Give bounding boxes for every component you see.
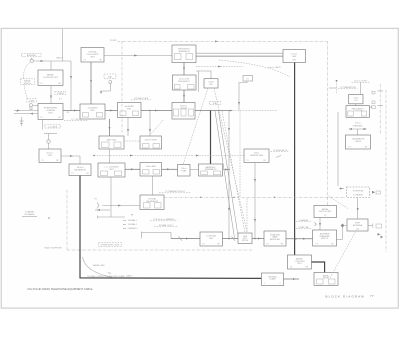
wire aerial lead curve <box>83 257 113 277</box>
svg-text:EXCHANGE: EXCHANGE <box>24 213 35 216</box>
wire FS to B21 <box>103 205 141 207</box>
box B18 1Mc trap <box>178 165 191 177</box>
svg-text:4 CHANNEL: 4 CHANNEL <box>298 219 308 222</box>
node XTAL label left <box>100 74 116 94</box>
wire B20 down <box>254 163 256 239</box>
box B19 harmonic generator <box>199 164 223 176</box>
wire antenna lead-in <box>33 60 71 62</box>
wire dashed LO distribution <box>93 155 244 157</box>
box B31 line isolating filter <box>238 233 252 244</box>
node TO TRANSMITTER KEY label <box>159 190 191 193</box>
svg-text:SWITCH UNIT: SWITCH UNIT <box>319 211 332 213</box>
wire B34 out right <box>284 278 300 280</box>
svg-text:ANTENNA: ANTENNA <box>353 224 363 227</box>
node 10kc standard text block <box>349 123 367 136</box>
wire dashed between B12 B13 <box>124 140 140 142</box>
svg-text:FOR 100 kc/s CHANNELS: FOR 100 kc/s CHANNELS <box>153 218 175 221</box>
node left tiny marks <box>15 111 23 126</box>
wire B30 to B31 <box>223 236 239 240</box>
svg-text:CW: CW <box>356 229 359 231</box>
box B7 10kc std freq <box>173 75 197 90</box>
svg-text:XTAL: XTAL <box>108 76 112 79</box>
svg-text:TELEPHONE: TELEPHONE <box>353 191 365 193</box>
wire B4 to B12 <box>109 119 111 136</box>
wire inputs left of B2 <box>14 110 38 115</box>
wire antenna to earth switch dashed curve <box>23 63 29 79</box>
node marks right of B27 <box>368 224 383 239</box>
box B32 standing wave meter <box>264 231 286 246</box>
svg-text:FREQUENCY: FREQUENCY <box>178 81 191 83</box>
svg-text:BLOCK DIAGRAM: BLOCK DIAGRAM <box>326 294 365 298</box>
wire V left branch <box>183 88 208 165</box>
wire B4 to B5 <box>105 110 118 112</box>
wire B17 to B18 <box>162 168 178 170</box>
box B2 1st mixer rf amp <box>38 104 63 120</box>
node LO/BFO dashes <box>64 119 88 121</box>
svg-text:GLAND: GLAND <box>269 278 276 281</box>
wire AF line <box>98 213 135 218</box>
boundary diagonal B35 to B27 <box>330 231 356 278</box>
box B27 whip antenna <box>347 219 368 231</box>
wire dark L calibrator down and across <box>80 176 262 279</box>
box B30 coupler unit <box>200 232 223 246</box>
wire switch to tune dashed curve <box>24 85 28 99</box>
svg-text:TUNE: TUNE <box>29 100 35 102</box>
boundary dash-dot right vertical <box>327 41 329 205</box>
wire B28 to B29 <box>319 218 321 231</box>
box B10 tiny LO <box>243 76 253 82</box>
box B8 100kc divider <box>172 103 195 120</box>
svg-text:B 7: B 7 <box>59 99 62 101</box>
box B35 aerial bottom right <box>314 273 338 286</box>
svg-text:GATE UNIT: GATE UNIT <box>107 139 118 142</box>
svg-text:2 WIRE LINE: 2 WIRE LINE <box>298 227 309 229</box>
svg-text:SWITCH: SWITCH <box>24 83 32 85</box>
boundary dash-dot right col A <box>379 84 381 134</box>
boundary dash-dot lower-left <box>67 190 253 250</box>
svg-text:NORMAL TYPE 1: NORMAL TYPE 1 <box>159 224 173 227</box>
wire B14 to B15 <box>61 155 80 164</box>
svg-text:GENERATOR: GENERATOR <box>178 50 190 53</box>
box B13 4Mc filter <box>140 136 162 149</box>
box B16 LO 2nd mixer <box>98 163 125 177</box>
node CRYSTAL PLATE label <box>131 97 151 100</box>
svg-text:TO TRANSMITTER: TO TRANSMITTER <box>340 86 356 89</box>
node right small marks mid <box>339 188 381 195</box>
box B4 2nd mixer <box>80 104 105 119</box>
wire diagonal E dashed <box>222 111 245 233</box>
box B21 crystal calibrator <box>140 195 164 210</box>
node 4CH labels left <box>296 219 316 229</box>
wire dark vertical from B11 <box>294 63 296 256</box>
wire lead-in from roof <box>62 29 64 61</box>
node channel rows <box>123 219 138 230</box>
svg-text:CHECK: CHECK <box>355 141 362 143</box>
wire vertical junction to coupler line <box>228 111 230 239</box>
node FOR 100kc label <box>150 218 178 221</box>
svg-text:SWITCH: SWITCH <box>321 238 329 240</box>
svg-text:L.O. / B.F.O.: L.O. / B.F.O. <box>71 119 81 121</box>
boundary dash-dot top <box>110 40 328 42</box>
box B1 aerial coupling unit <box>38 70 63 86</box>
svg-text:1: 1 <box>264 283 265 285</box>
svg-text:10 kc/s COUNT: 10 kc/s COUNT <box>354 81 367 83</box>
svg-text:CABLE: CABLE <box>126 275 133 278</box>
box B9 1Mc oscillator <box>204 79 218 88</box>
svg-text:TRAP: TRAP <box>181 170 187 173</box>
node TUNE label <box>27 99 37 103</box>
svg-text:AERIAL LEAD: AERIAL LEAD <box>93 264 105 267</box>
box B6 frequency generator <box>172 45 196 63</box>
svg-text:GEN: GEN <box>292 56 297 58</box>
wire into B22 <box>359 82 361 94</box>
wire diagonal dash into B13 <box>151 120 163 134</box>
node XTAL label mid <box>209 101 221 105</box>
wire channel selector to coupler <box>142 232 201 241</box>
box B11 rf generator <box>283 50 306 63</box>
svg-text:77: 77 <box>370 294 374 298</box>
svg-text:OSC: OSC <box>209 84 214 86</box>
svg-text:STANDARD: STANDARD <box>353 124 363 127</box>
box B20 1Mc carrier generator <box>244 149 269 163</box>
wire rx bypass <box>67 61 72 114</box>
wire B12 to B16 <box>109 149 111 163</box>
svg-text:GENERATOR: GENERATOR <box>205 168 217 171</box>
node TO AERIAL EXCHANGE label <box>22 211 50 219</box>
wire B29 to whip diamond <box>337 224 348 240</box>
wire loop to 1Mc osc <box>196 71 211 92</box>
wire B23 right <box>369 106 372 108</box>
svg-text:RADIO TELEPHONE: RADIO TELEPHONE <box>44 247 62 250</box>
svg-text:CARRIER GEN: CARRIER GEN <box>250 154 264 157</box>
svg-text:TO TRANSMITTER KEY: TO TRANSMITTER KEY <box>165 190 186 193</box>
boundary dash-dot mid horizontal <box>164 197 345 198</box>
box B14 2nd LO <box>39 149 61 163</box>
svg-text:COUPLING UNIT: COUPLING UNIT <box>43 77 59 79</box>
svg-text:4 Mc/s FILTER: 4 Mc/s FILTER <box>144 140 157 142</box>
wire B19 out right <box>223 169 230 171</box>
wire B22 to B23 <box>355 104 357 106</box>
svg-text:AMPLIFIER: AMPLIFIER <box>270 238 281 241</box>
svg-text:TL: TL <box>15 111 17 113</box>
wire B16 down <box>110 177 112 217</box>
node earth switch label <box>21 79 35 85</box>
svg-text:POWER SUPPLY UNIT: POWER SUPPLY UNIT <box>101 245 121 247</box>
wire left of B25 <box>337 112 339 186</box>
svg-text:FILTER: FILTER <box>242 240 249 242</box>
svg-text:CHANNEL 3: CHANNEL 3 <box>127 227 137 230</box>
svg-text:10 kc/s: 10 kc/s <box>355 123 361 125</box>
box B26 telephone label <box>347 187 370 198</box>
svg-text:TX UNIT: TX UNIT <box>110 40 118 42</box>
node NORMAL TYPE label <box>154 224 178 227</box>
node FS marks <box>94 199 110 212</box>
wire B18 to B19 <box>190 169 199 171</box>
node 10kc count label <box>352 81 370 83</box>
svg-text:FLEXIBLE CONNECTION GASTIGHT G: FLEXIBLE CONNECTION GASTIGHT GLAND <box>87 275 125 278</box>
wire B10 down <box>238 81 247 111</box>
wire heavy double line B6 to B11 <box>196 53 283 56</box>
svg-text:TO MODULATOR: TO MODULATOR <box>273 149 288 152</box>
insulator circle 2 <box>29 104 38 110</box>
wire B31 to B32 <box>252 238 264 240</box>
wire 10kc check dashed curve <box>219 60 290 77</box>
svg-text:CTR: CTR <box>354 100 359 102</box>
box B33 aerial coupling bottom <box>288 255 312 269</box>
svg-text:NORMAL 1: NORMAL 1 <box>128 219 137 222</box>
crystal circle over B14 <box>44 134 57 150</box>
svg-text:TUNING: TUNING <box>57 93 64 95</box>
wire stub below B2 <box>42 120 44 130</box>
svg-text:4 CHANNEL: 4 CHANNEL <box>353 194 363 197</box>
node right connector marks top <box>372 89 384 109</box>
boundary diagonal into B28 <box>329 196 349 209</box>
box B15 calibrator <box>69 164 91 176</box>
wire dark vertical to harmonic gen <box>210 111 212 165</box>
wire B2 to B4 <box>63 110 80 112</box>
svg-text:OSC: OSC <box>292 60 297 62</box>
wire main IF dashes to right <box>232 110 278 112</box>
box B23 frequency counter <box>346 106 369 118</box>
box B25 calibration check <box>346 135 371 149</box>
wire B1 to B2 <box>50 86 52 104</box>
wire diagonal D <box>219 111 239 236</box>
wire B7 to B8 <box>183 90 185 103</box>
wire junction to B13 <box>149 111 151 137</box>
svg-text:ANTENNA: ANTENNA <box>27 54 36 57</box>
box B17 4Mc amplifier <box>140 163 162 177</box>
svg-text:CALIBRATOR: CALIBRATOR <box>74 169 87 172</box>
wire B33 to B35 dark <box>312 262 325 273</box>
wire B5 down <box>127 118 129 137</box>
wire V right branch <box>214 88 247 232</box>
wire B16 to B17 <box>125 168 140 170</box>
boundary dash-dot left vertical <box>121 41 123 133</box>
antenna insulator circle <box>30 58 33 63</box>
node L.O. UNITS label <box>45 125 61 129</box>
svg-text:L.O. UNITS: L.O. UNITS <box>48 127 58 129</box>
wire dashed vertical mid <box>239 111 241 197</box>
wire B17 to B21 <box>152 176 154 195</box>
box B22 counter <box>349 94 363 103</box>
svg-text:XTAL: XTAL <box>213 102 217 105</box>
svg-text:NORMAL 2: NORMAL 2 <box>128 223 137 226</box>
svg-text:10 kc/s CHECK: 10 kc/s CHECK <box>268 67 281 69</box>
wire dashed 10kc out <box>196 66 243 68</box>
box B12 gate unit <box>99 136 124 149</box>
wire B3 to B4 <box>90 62 92 104</box>
node POWER SUPPLY UNIT label <box>99 243 122 247</box>
svg-text:CRYSTAL PLATE: CRYSTAL PLATE <box>134 97 149 100</box>
wire diagonal C <box>215 111 235 238</box>
wire B8 to junction solid <box>195 110 232 112</box>
svg-text:4 Mc/s AMP: 4 Mc/s AMP <box>146 165 157 168</box>
box B5 3rd mixer <box>118 103 142 118</box>
wire antenna to coupler <box>50 61 52 70</box>
node ANTENNA label <box>22 53 42 57</box>
wire dashed into B31 <box>246 198 248 233</box>
box B34 junction box <box>262 273 284 286</box>
box B28 aerial switch unit <box>314 206 337 218</box>
svg-text:FIG 474 HF RADIO TELEPHONE EQ: FIG 474 HF RADIO TELEPHONE EQUIPMENT CAB… <box>28 287 93 291</box>
wire B6 to B7 <box>183 63 185 76</box>
node flexible connection text <box>87 275 132 278</box>
wire B32 to B29 <box>286 238 313 240</box>
box B29 transfer switch <box>313 230 337 246</box>
node TO label right of B20 <box>271 149 290 158</box>
node TUNING label <box>55 92 66 96</box>
wire B3 to B6 <box>104 55 172 57</box>
wire B26 to B27 <box>357 198 359 220</box>
wire B5 to B8 <box>141 110 172 112</box>
box B3 crystal oscillator <box>81 48 104 63</box>
node TO TRANSMITTER label right <box>329 80 358 94</box>
boundary dash-dot right col B <box>385 90 387 252</box>
svg-text:2: 2 <box>280 283 281 285</box>
